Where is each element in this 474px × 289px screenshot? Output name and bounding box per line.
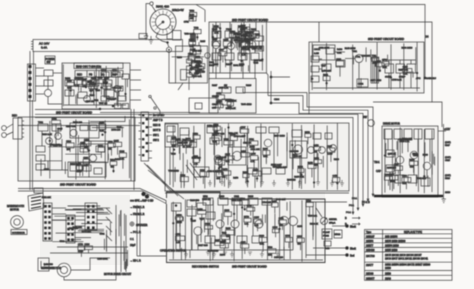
svg-text:2ND PRINT CIRCUIT BOARD: 2ND PRINT CIRCUIT BOARD	[232, 265, 267, 269]
scan shading tints	[18, 22, 438, 265]
svg-text:R339 10/16: R339 10/16	[402, 48, 414, 50]
svg-text:B: B	[345, 217, 347, 220]
ground symbols box F	[206, 252, 252, 255]
components cluster box E extra	[171, 124, 335, 186]
svg-text:AMP T B: AMP T B	[153, 119, 163, 122]
svg-text:C752: C752	[184, 22, 190, 24]
svg-text:2SB9: 2SB9	[385, 267, 392, 270]
svg-text:C389: C389	[224, 210, 230, 212]
svg-text:R203: R203	[177, 57, 183, 59]
svg-text:RECORDING SWITCH: RECORDING SWITCH	[192, 265, 219, 269]
wire board3 stubs	[308, 93, 310, 114]
svg-text:T569: T569	[268, 247, 274, 249]
svg-text:R795: R795	[384, 175, 390, 177]
svg-text:R256: R256	[98, 78, 104, 80]
components cluster box E2	[176, 133, 304, 184]
svg-text:2SB187: 2SB187	[366, 235, 375, 238]
svg-text:C801 10K: C801 10K	[251, 149, 261, 151]
svg-text:R836 1M: R836 1M	[202, 199, 211, 201]
wires bottom-left extra	[52, 209, 125, 269]
svg-text:BIAS OSC T-100 KHz: BIAS OSC T-100 KHz	[76, 65, 102, 69]
labels top cluster lbl	[184, 22, 206, 78]
operating switch labels	[130, 200, 186, 263]
svg-text:Q514 10/16: Q514 10/16	[50, 144, 62, 146]
svg-text:C517: C517	[190, 68, 196, 70]
board A contents	[64, 78, 126, 105]
svg-text:C464 2.2K: C464 2.2K	[112, 87, 122, 89]
components cluster box F more2	[177, 206, 279, 254]
svg-text:R001 420: R001 420	[156, 5, 169, 9]
svg-text:SW 1: SW 1	[153, 134, 160, 137]
bottom-left connector strips	[43, 203, 97, 243]
wires box D h	[44, 128, 124, 161]
svg-text:C696: C696	[230, 134, 236, 136]
svg-text:R818: R818	[219, 196, 225, 198]
svg-text:Q408: Q408	[314, 145, 320, 147]
wires board B long v	[212, 23, 263, 73]
svg-text:GOVERNOR: GOVERNOR	[12, 233, 25, 235]
svg-text:Q432: Q432	[213, 124, 219, 126]
svg-text:2SB438: 2SB438	[366, 249, 375, 252]
svg-text:T508 10/16: T508 10/16	[168, 171, 179, 173]
svg-text:APC: APC	[416, 77, 421, 80]
svg-text:5.6K: 5.6K	[189, 46, 194, 48]
svg-text:⊙⊙ SPK→AMP C BD: ⊙⊙ SPK→AMP C BD	[130, 200, 154, 203]
svg-text:D617 33/6: D617 33/6	[198, 245, 208, 247]
box D outline (left big board)	[18, 117, 135, 181]
svg-text:47/10: 47/10	[177, 222, 183, 224]
wire top rail outer	[170, 5, 425, 79]
svg-text:2SB5 2SB8: 2SB5 2SB8	[385, 249, 398, 252]
svg-text:3.3K: 3.3K	[337, 53, 342, 55]
ground symbols box E g	[208, 180, 344, 186]
svg-text:R784: R784	[247, 206, 253, 208]
svg-text:T299 0.01: T299 0.01	[308, 216, 318, 218]
components cluster top left of B more	[192, 61, 204, 74]
meter dial M1	[150, 2, 184, 35]
svg-text:C255: C255	[223, 39, 229, 41]
svg-text:C296: C296	[83, 157, 89, 159]
svg-text:T337: T337	[321, 66, 327, 68]
labels bottom-left lbl	[42, 197, 109, 269]
svg-text:C253 100K: C253 100K	[97, 258, 108, 260]
box E outline (middle board)	[165, 123, 349, 191]
svg-text:C220: C220	[213, 64, 219, 66]
svg-text:250μA: 250μA	[329, 222, 336, 225]
svg-text:C119: C119	[394, 164, 400, 166]
svg-text:D800: D800	[259, 236, 265, 238]
svg-text:Q619 22K: Q619 22K	[192, 50, 202, 52]
svg-text:2SB2 2SB54 2SB94 2SC72 2SB17 2: 2SB2 2SB54 2SB94 2SC72 2SB17 2SB88	[385, 264, 431, 267]
svg-text:1M: 1M	[223, 176, 226, 178]
wires box G2 v	[386, 139, 434, 186]
svg-text:C609: C609	[272, 227, 278, 229]
svg-text:C438 220: C438 220	[274, 257, 284, 259]
svg-text:2SC738: 2SC738	[366, 255, 375, 258]
components cluster box D extra	[52, 118, 127, 172]
svg-text:R360 1M: R360 1M	[287, 179, 296, 181]
components cluster box D right more	[77, 139, 116, 176]
svg-text:R812 33/6: R812 33/6	[107, 99, 117, 101]
svg-text:R258: R258	[409, 159, 415, 161]
svg-text:47/10: 47/10	[77, 171, 83, 173]
svg-text:R: R	[345, 223, 347, 226]
svg-text:2.2M: 2.2M	[314, 53, 319, 55]
svg-text:Q547: Q547	[249, 32, 255, 34]
wires box F long v	[173, 199, 316, 261]
horizontal wires under boards A	[18, 70, 218, 126]
svg-text:T743: T743	[194, 28, 200, 30]
svg-text:2ND PRINT CIRCUIT BOARD: 2ND PRINT CIRCUIT BOARD	[60, 183, 96, 187]
svg-text:C769: C769	[188, 54, 194, 56]
svg-text:REC B: REC B	[153, 124, 161, 127]
transistor Q201	[205, 53, 211, 59]
svg-text:D759 100: D759 100	[111, 129, 121, 131]
svg-text:3.3K: 3.3K	[67, 87, 72, 89]
svg-text:Q305: Q305	[114, 140, 120, 142]
switch S2 near connector strip	[149, 95, 160, 116]
labels box G lbl	[387, 139, 429, 180]
svg-text:Q877: Q877	[195, 65, 201, 67]
svg-text:C731: C731	[100, 233, 106, 235]
svg-text:D250: D250	[176, 139, 182, 141]
box F contents	[172, 196, 298, 250]
wires box E long v	[173, 123, 338, 190]
svg-text:C436: C436	[84, 244, 90, 246]
svg-text:C708: C708	[112, 70, 118, 72]
svg-text:REPLACE TYPE: REPLACE TYPE	[404, 231, 422, 234]
table legend arrows	[345, 217, 360, 226]
svg-text:R227: R227	[212, 85, 218, 87]
svg-text:24: 24	[426, 35, 429, 39]
svg-text:REC: REC	[12, 115, 17, 118]
svg-text:C798 3.3K: C798 3.3K	[234, 136, 244, 138]
svg-text:C248: C248	[67, 81, 73, 83]
svg-text:R337 33/6: R337 33/6	[215, 134, 225, 136]
svg-text:Q803: Q803	[242, 28, 248, 30]
bottom-left: angled connector	[28, 188, 44, 211]
svg-text:PC-1: PC-1	[349, 205, 355, 207]
svg-text:B+ OF NO: B+ OF NO	[153, 114, 164, 117]
svg-text:C595 4.7K: C595 4.7K	[219, 88, 229, 90]
svg-text:D843 22K: D843 22K	[276, 199, 286, 201]
node pad 4	[424, 77, 426, 79]
svg-text:C654: C654	[216, 93, 222, 95]
svg-text:2SD38: 2SD38	[366, 272, 374, 275]
svg-text:R229: R229	[246, 85, 252, 87]
svg-text:SW 2: SW 2	[153, 139, 160, 142]
svg-text:C606: C606	[190, 141, 196, 143]
svg-text:(CAP): (CAP)	[445, 156, 451, 159]
box D double verticals	[30, 100, 134, 190]
long verticals right of board B	[243, 71, 290, 104]
svg-text:C818: C818	[327, 146, 333, 148]
svg-text:C784 22K: C784 22K	[262, 202, 272, 204]
wires box G long v	[384, 127, 432, 193]
svg-text:SPEAKER: SPEAKER	[136, 224, 148, 227]
svg-text:2SC8 2SC7 2SC1 2SC11 2SC63 2SC: 2SC8 2SC7 2SC1 2SC11 2SC63 2SC41	[385, 258, 429, 261]
svg-text:Q682 33/6: Q682 33/6	[277, 167, 288, 169]
svg-text:SW: SW	[47, 61, 52, 64]
wires board3 long v	[311, 42, 418, 91]
svg-text:2SB54 2SB8: 2SB54 2SB8	[385, 244, 399, 247]
svg-text:R140 10/16: R140 10/16	[345, 48, 357, 50]
pot box right of dial	[173, 31, 182, 41]
svg-text:T346: T346	[253, 63, 259, 65]
svg-text:R630 220: R630 220	[73, 122, 83, 124]
bottom board box F	[167, 192, 326, 269]
svg-text:FLOAT: FLOAT	[323, 231, 331, 234]
switch contacts bottom-left right part	[106, 205, 126, 272]
svg-text:Red: Red	[350, 255, 355, 258]
svg-text:R266: R266	[226, 228, 232, 230]
svg-text:C122: C122	[119, 151, 125, 153]
svg-text:C413: C413	[80, 143, 86, 145]
svg-text:C436: C436	[84, 139, 90, 141]
box E contents	[165, 124, 336, 185]
AC input box	[31, 40, 183, 52]
svg-text:C495: C495	[254, 217, 260, 219]
jack circle J1	[166, 47, 171, 52]
svg-text:D720: D720	[306, 201, 312, 203]
svg-text:(CAP): (CAP)	[445, 174, 451, 177]
+12V	[438, 127, 450, 131]
bottom-left wires	[50, 208, 128, 253]
svg-text:→ KD L R: → KD L R	[130, 260, 141, 263]
wire dial left down	[146, 4, 150, 34]
svg-text:Q791: Q791	[382, 60, 388, 62]
board B outline	[209, 18, 268, 80]
svg-text:R675: R675	[220, 254, 226, 256]
svg-text:Black: Black	[350, 226, 357, 229]
svg-text:EQ: EQ	[101, 74, 105, 77]
switch near meter	[306, 202, 347, 258]
wires cluster above board B	[178, 5, 205, 91]
svg-text:0.047: 0.047	[327, 154, 333, 156]
svg-text:SW: SW	[363, 116, 368, 119]
wires board3 v	[354, 47, 416, 88]
board A outline (2nd print circuit board)	[56, 63, 130, 115]
labels box E lbl	[168, 133, 339, 181]
svg-text:T781: T781	[356, 57, 362, 59]
svg-text:R418 560: R418 560	[44, 264, 54, 266]
labels box D lbl	[42, 122, 122, 171]
wire right margin vertical	[442, 124, 452, 203]
svg-text:C471: C471	[333, 176, 339, 178]
svg-text:R689: R689	[243, 172, 249, 174]
svg-text:47/10: 47/10	[242, 34, 248, 36]
meter M801	[320, 217, 337, 224]
svg-text:C587: C587	[219, 50, 225, 52]
svg-text:R886: R886	[423, 155, 429, 157]
svg-text:C784: C784	[44, 169, 50, 171]
svg-text:D591: D591	[249, 139, 255, 141]
wires box F wires	[177, 200, 288, 260]
box C outline	[209, 79, 256, 114]
svg-text:2SB 2SB54: 2SB 2SB54	[385, 235, 398, 238]
components cluster board3 extra	[323, 55, 412, 86]
svg-text:R103 1K: R103 1K	[310, 224, 319, 226]
svg-text:C277: C277	[241, 242, 247, 244]
svg-text:R361: R361	[323, 74, 329, 76]
svg-text:C807 4.7K: C807 4.7K	[252, 49, 262, 51]
svg-text:Q829: Q829	[253, 169, 259, 171]
board 3 contents	[311, 45, 420, 88]
left jacks connector	[2, 115, 24, 140]
operating switch common rails	[137, 205, 166, 256]
svg-text:Q787: Q787	[240, 127, 246, 129]
svg-text:T602: T602	[38, 122, 44, 124]
board B contents	[212, 22, 259, 73]
svg-text:R849: R849	[90, 95, 96, 97]
svg-text:T619: T619	[171, 154, 177, 156]
svg-text:R873: R873	[223, 169, 229, 171]
svg-text:D202 33/6: D202 33/6	[178, 143, 188, 145]
svg-text:R347: R347	[227, 100, 233, 102]
svg-text:C515: C515	[445, 160, 451, 162]
labels box F lbl	[190, 199, 318, 259]
svg-text:20kΩ×W: 20kΩ×W	[172, 8, 184, 12]
ground under dial 2	[149, 36, 153, 44]
svg-text:C773: C773	[78, 244, 84, 246]
svg-text:C662 100K: C662 100K	[319, 47, 330, 49]
svg-text:4.7K: 4.7K	[227, 107, 232, 109]
svg-text:2SD5 2SB8 2SB98: 2SD5 2SB8 2SB98	[385, 240, 406, 243]
svg-text:R508: R508	[298, 167, 304, 169]
svg-text:Q495: Q495	[250, 154, 256, 156]
wires box G wires	[395, 142, 434, 187]
svg-text:C614: C614	[66, 141, 72, 143]
left small components near power	[44, 56, 62, 104]
svg-text:R391: R391	[98, 146, 104, 148]
svg-text:DRIVE MOTOR: DRIVE MOTOR	[383, 123, 400, 126]
head bias sub-board	[172, 46, 208, 83]
svg-text:47/10: 47/10	[78, 251, 84, 253]
wires board A v	[76, 71, 128, 104]
svg-text:R547 10/16: R547 10/16	[274, 136, 286, 138]
svg-text:4.7K: 4.7K	[250, 161, 255, 163]
components cluster box G2	[384, 159, 417, 189]
svg-text:MOT B: MOT B	[153, 129, 161, 132]
svg-text:R636: R636	[245, 42, 251, 44]
svg-text:2.2K: 2.2K	[120, 159, 125, 161]
svg-text:Q485: Q485	[272, 201, 278, 203]
svg-text:GAIN ADJ: GAIN ADJ	[426, 77, 436, 80]
svg-text:MR2: MR2	[203, 196, 208, 198]
svg-text:C811: C811	[234, 196, 240, 198]
wires bl v	[104, 222, 127, 270]
labels board B lbl	[233, 36, 263, 67]
middle connector strip	[139, 112, 165, 161]
svg-text:REC: REC	[77, 74, 82, 77]
ground symbols box E	[220, 182, 320, 185]
svg-text:2SB77: 2SB77	[366, 244, 374, 247]
wires board A long v	[63, 64, 118, 108]
svg-text:R395: R395	[263, 149, 269, 151]
svg-text:2SB377: 2SB377	[366, 277, 375, 280]
svg-text:R255: R255	[99, 122, 105, 124]
components cluster box F extra	[175, 198, 304, 258]
box D contents	[36, 122, 108, 177]
svg-text:Q416: Q416	[241, 151, 247, 153]
svg-text:AMP: AMP	[112, 74, 118, 77]
svg-text:Q311: Q311	[74, 78, 80, 80]
svg-text:C 1: C 1	[130, 238, 134, 241]
svg-text:R607: R607	[177, 215, 183, 217]
svg-text:C125: C125	[191, 221, 197, 223]
svg-text:6.8K: 6.8K	[260, 243, 265, 245]
svg-text:10K: 10K	[190, 18, 194, 20]
components cluster board B extra	[214, 25, 250, 52]
svg-text:R609: R609	[77, 164, 83, 166]
svg-text:T553: T553	[189, 11, 195, 13]
svg-text:C162: C162	[402, 176, 408, 178]
components cluster bottom left more	[78, 244, 93, 257]
svg-text:R673: R673	[115, 159, 121, 161]
svg-text:R816: R816	[248, 196, 254, 198]
ground symbols box F g	[184, 251, 280, 257]
wires B to C	[216, 73, 255, 79]
components cluster top cluster	[188, 11, 201, 72]
harness bus 5 lines	[35, 93, 432, 212]
motor drive box G	[374, 123, 443, 198]
svg-text:→ PC L R: → PC L R	[130, 231, 141, 234]
svg-text:5.6K: 5.6K	[100, 131, 105, 133]
svg-text:C301 5.6K: C301 5.6K	[231, 200, 241, 202]
replacement table	[365, 230, 453, 281]
main motor	[7, 205, 27, 235]
svg-text:C143: C143	[189, 14, 195, 16]
svg-text:C593: C593	[108, 142, 114, 144]
svg-text:R458: R458	[229, 32, 235, 34]
svg-text:R716: R716	[214, 26, 220, 28]
svg-text:6.8K: 6.8K	[383, 67, 388, 69]
svg-text:→ FROM L R: → FROM L R	[130, 213, 145, 216]
svg-text:R891 6.8K: R891 6.8K	[233, 65, 243, 67]
small parts above AC box right	[139, 33, 201, 54]
svg-text:(CAP): (CAP)	[445, 141, 451, 144]
svg-text:R188: R188	[334, 159, 340, 161]
wires box D long v	[49, 119, 130, 179]
svg-text:R516: R516	[445, 178, 451, 180]
components cluster board A extra	[67, 78, 106, 96]
svg-text:R715 0.047: R715 0.047	[271, 164, 283, 166]
components cluster box F2	[226, 201, 314, 252]
wires box E2 v	[181, 128, 299, 188]
svg-text:T305 47/10: T305 47/10	[241, 104, 252, 106]
svg-text:10K: 10K	[195, 72, 199, 74]
svg-text:→ FROM L R: → FROM L R	[130, 206, 145, 209]
svg-text:10/16: 10/16	[445, 192, 451, 194]
board 3 outline	[309, 42, 424, 93]
components cluster box E more2	[216, 132, 339, 183]
svg-text:D354: D354	[195, 56, 201, 58]
svg-text:C424 560: C424 560	[289, 151, 299, 153]
wires top B2 v	[216, 36, 249, 71]
svg-text:R156: R156	[308, 162, 314, 164]
svg-text:Q355: Q355	[216, 102, 222, 104]
svg-text:R615: R615	[200, 41, 206, 43]
svg-text:2SB54: 2SB54	[366, 240, 374, 243]
components cluster board A right	[101, 70, 129, 101]
svg-text:PC-1: PC-1	[346, 212, 352, 214]
svg-text:C177 47/10: C177 47/10	[370, 80, 382, 82]
svg-text:FUSE: FUSE	[323, 236, 329, 238]
wire box E bottom parallel	[165, 192, 349, 194]
harness arrows bottom	[346, 194, 374, 215]
svg-text:R403: R403	[337, 49, 343, 51]
svg-text:+12V: +12V	[444, 127, 450, 131]
